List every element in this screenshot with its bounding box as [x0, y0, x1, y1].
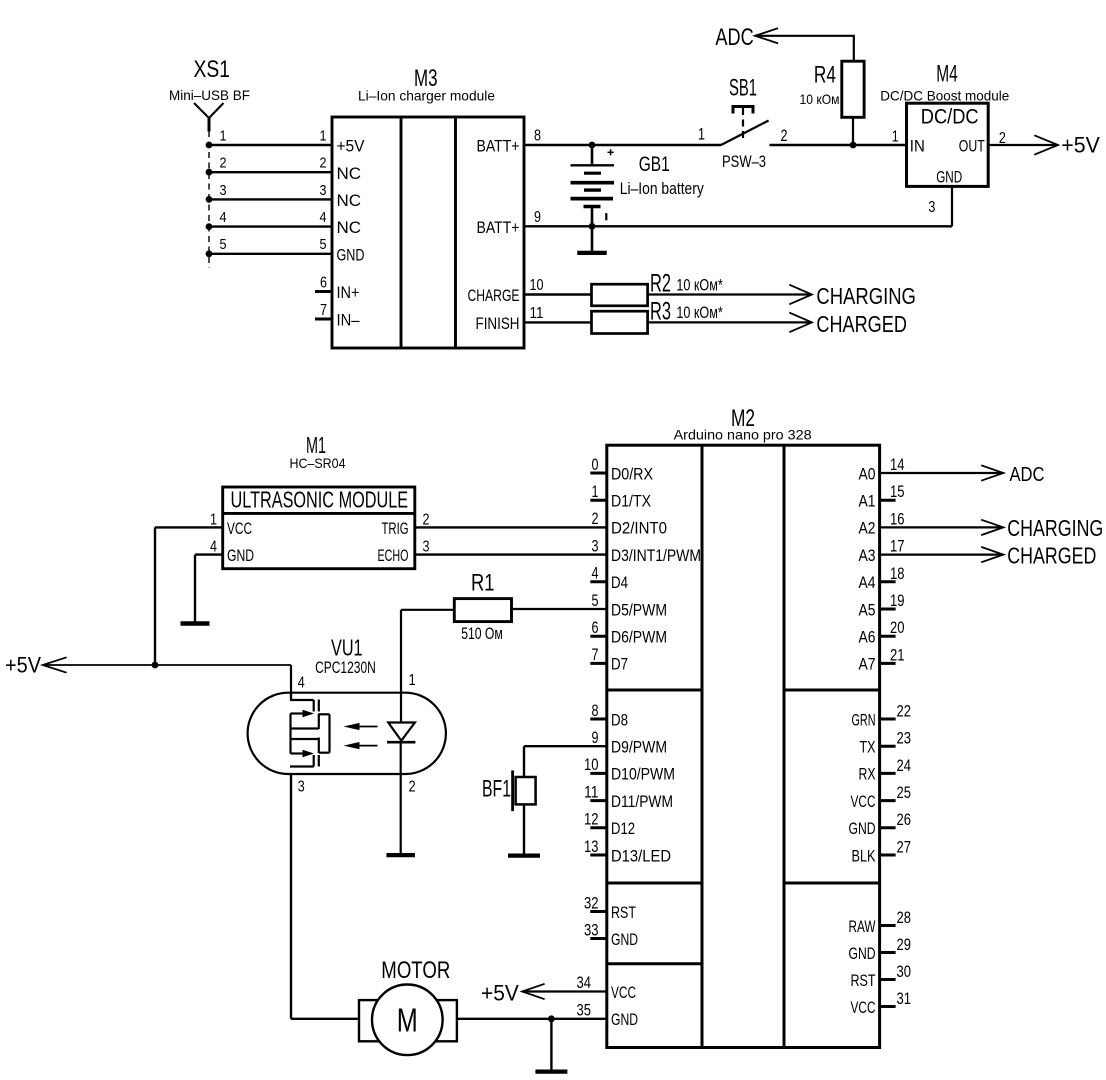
XS1 pin 3 wire to M3 pin 3 — [206, 182, 332, 203]
svg-text:R3: R3 — [650, 297, 671, 325]
svg-text:A7: A7 — [859, 655, 876, 674]
M2 pin 3 D3/INT1/PWM — [592, 537, 702, 565]
wire SB1 to M4 pin 1 IN — [770, 144, 907, 146]
junction node battery + on pin 8 wire — [589, 142, 596, 149]
svg-text:ULTRASONIC MODULE: ULTRASONIC MODULE — [231, 487, 409, 513]
svg-text:14: 14 — [890, 456, 905, 474]
M2 pin 11 D11/PWM — [584, 783, 673, 811]
svg-text:+5V: +5V — [481, 980, 519, 1005]
svg-text:TX: TX — [860, 738, 876, 757]
wire M3 CHARGE pin 10 to R2 — [524, 293, 592, 295]
connector XS1 dashed body line — [208, 131, 210, 268]
svg-text:3: 3 — [220, 182, 227, 199]
net flag CHARGED (top) arrow — [789, 313, 812, 333]
M3 pin 8 BATT+ label — [477, 128, 542, 156]
svg-text:NC: NC — [337, 218, 362, 237]
svg-text:MOTOR: MOTOR — [381, 957, 450, 984]
svg-text:GND: GND — [849, 819, 876, 838]
XS1 pin 1 wire to M3 pin 1 — [206, 127, 332, 148]
wire M2 A0 to ADC flag — [880, 472, 1001, 474]
svg-text:26: 26 — [897, 811, 912, 829]
svg-text:A5: A5 — [859, 600, 876, 619]
svg-text:22: 22 — [897, 702, 912, 720]
svg-text:D7: D7 — [611, 655, 628, 674]
svg-text:4: 4 — [298, 675, 305, 692]
svg-text:2: 2 — [423, 511, 430, 528]
svg-text:6: 6 — [592, 619, 599, 637]
svg-text:15: 15 — [890, 483, 905, 501]
svg-text:+5V: +5V — [5, 653, 41, 678]
svg-text:GND: GND — [849, 944, 876, 963]
M2 pin 24 RX — [859, 757, 912, 784]
wire M1 TRIG to M2 D2 — [415, 526, 607, 528]
wire R4 top to ADC flag — [755, 36, 855, 61]
battery GB1 symbol — [571, 145, 615, 253]
svg-text:8: 8 — [592, 702, 599, 720]
svg-text:D11/PWM: D11/PWM — [611, 792, 673, 811]
svg-text:2: 2 — [592, 510, 599, 528]
svg-text:9: 9 — [592, 729, 599, 747]
svg-text:M: M — [397, 1002, 418, 1039]
resistor R3 body — [592, 311, 648, 333]
wire R4 bottom to IN wire — [852, 117, 854, 145]
M2 pin 21 A7 — [859, 646, 905, 673]
battery GB1 minus tick — [605, 213, 607, 220]
wire R3 to CHARGED flag — [648, 321, 810, 323]
wire M3 FINISH pin 11 to R3 — [524, 321, 592, 323]
ground symbol below VU1 pin 2 — [386, 853, 415, 857]
VU1 MOSFET gate bracket with body arrows — [291, 710, 319, 758]
svg-text:VCC: VCC — [851, 792, 876, 811]
svg-text:20: 20 — [890, 619, 905, 637]
svg-text:30: 30 — [897, 963, 912, 981]
M2 pin 7 D7 — [590, 646, 628, 674]
M2 pin 25 VCC — [851, 784, 912, 811]
svg-text:NC: NC — [337, 191, 362, 210]
net flag CHARGED (A3) arrow — [981, 547, 1003, 562]
svg-text:BF1: BF1 — [482, 776, 511, 803]
wire M2 A3 to CHARGED flag — [880, 553, 1001, 555]
svg-text:D4: D4 — [611, 573, 628, 592]
svg-text:2: 2 — [409, 778, 416, 795]
svg-text:10: 10 — [530, 277, 544, 294]
svg-text:3: 3 — [928, 199, 935, 216]
ground symbol below M1 GND — [181, 621, 210, 626]
wire M1 GND down — [195, 555, 223, 622]
svg-text:4: 4 — [220, 209, 227, 226]
svg-text:16: 16 — [890, 510, 905, 528]
svg-text:1: 1 — [698, 125, 705, 143]
connector XS1 socket symbol — [194, 103, 224, 132]
svg-text:A1: A1 — [859, 492, 876, 511]
switch SB1 push-button symbol — [721, 105, 769, 145]
svg-text:FINISH: FINISH — [476, 314, 520, 333]
svg-text:A2: A2 — [859, 519, 876, 538]
XS1 pin 5 wire to M3 pin 5 — [206, 236, 332, 257]
XS1 pin 4 wire to M3 pin 4 — [206, 209, 332, 230]
M2 pin 2 D2/INT0 — [592, 510, 668, 538]
svg-text:5: 5 — [320, 236, 327, 253]
svg-text:D1/TX: D1/TX — [611, 492, 651, 511]
M1 pin 3 ECHO label — [378, 539, 430, 565]
M2 pin 35 GND — [577, 1001, 639, 1029]
svg-text:11: 11 — [584, 783, 599, 801]
svg-text:D9/PWM: D9/PWM — [611, 738, 667, 757]
M2 pin 8 D8 — [590, 702, 628, 730]
module M1 body — [223, 487, 415, 569]
svg-text:CHARGING: CHARGING — [1007, 515, 1103, 541]
junction node GND35 wire to ground — [548, 1015, 555, 1022]
svg-text:9: 9 — [534, 209, 541, 226]
ground symbol below battery GB1 — [577, 251, 607, 255]
svg-text:RX: RX — [859, 765, 876, 784]
M4 pin 3 GND label — [928, 168, 962, 217]
svg-text:Li–Ion charger module: Li–Ion charger module — [358, 88, 495, 104]
svg-text:GND: GND — [227, 546, 254, 565]
M3 pin 7 stub IN- — [315, 302, 360, 329]
svg-text:2: 2 — [320, 155, 327, 172]
M2 pin 16 A2 — [859, 510, 905, 537]
M2 pin 23 TX — [860, 730, 912, 757]
wire M3 pin 9 to M4 pin 3 (battery minus rail) — [524, 225, 952, 227]
svg-text:510 Ом: 510 Ом — [461, 625, 503, 643]
svg-text:35: 35 — [577, 1001, 592, 1019]
svg-text:3: 3 — [423, 539, 430, 556]
svg-text:BATT+: BATT+ — [477, 137, 520, 156]
svg-text:D6/PWM: D6/PWM — [611, 628, 667, 647]
svg-text:23: 23 — [897, 730, 912, 748]
svg-text:19: 19 — [890, 592, 905, 610]
svg-text:VCC: VCC — [227, 519, 252, 538]
junction node battery - on pin 9 wire — [589, 223, 596, 230]
resistor R1 body — [454, 599, 511, 622]
svg-text:VCC: VCC — [611, 983, 636, 1002]
resistor R4 body — [842, 61, 864, 117]
svg-text:HC–SR04: HC–SR04 — [290, 455, 346, 471]
svg-text:IN: IN — [910, 137, 925, 156]
wire M1 VCC to +5V rail — [155, 527, 223, 665]
svg-text:4: 4 — [210, 539, 217, 556]
svg-text:CHARGED: CHARGED — [1007, 543, 1096, 569]
wire motor to M2 GND pin 35 — [440, 1018, 607, 1020]
wire M1 ECHO to M2 D3 — [415, 553, 607, 555]
VU1 LED symbol — [387, 723, 415, 743]
svg-text:21: 21 — [890, 646, 905, 664]
M2 pin 27 BLK — [852, 838, 912, 865]
svg-text:A4: A4 — [859, 573, 876, 592]
svg-text:ECHO: ECHO — [378, 546, 409, 565]
svg-text:8: 8 — [534, 128, 541, 145]
wire M2 D9 to BF1 — [524, 746, 607, 777]
svg-text:GND: GND — [611, 930, 638, 949]
svg-text:1: 1 — [220, 127, 227, 144]
wire M2 A2 to CHARGING flag — [880, 526, 1001, 528]
svg-text:GND: GND — [337, 245, 365, 264]
svg-text:BLK: BLK — [852, 846, 876, 865]
svg-text:A3: A3 — [859, 546, 876, 565]
svg-text:0: 0 — [592, 456, 599, 474]
svg-text:7: 7 — [320, 302, 327, 319]
M2 pin 14 A0 — [859, 456, 905, 483]
svg-text:7: 7 — [592, 646, 599, 664]
wire junction down to ground — [550, 1019, 552, 1070]
svg-text:PSW–3: PSW–3 — [722, 153, 766, 171]
svg-text:Arduino nano pro 328: Arduino nano pro 328 — [674, 427, 812, 443]
svg-text:3: 3 — [320, 182, 327, 199]
net flag CHARGING (top) arrow — [789, 285, 812, 305]
svg-text:TRIG: TRIG — [382, 519, 409, 538]
svg-text:R1: R1 — [471, 569, 495, 596]
svg-text:BATT+: BATT+ — [477, 218, 520, 237]
buzzer BF1 body — [513, 770, 536, 811]
junction node R4 bottom on IN wire — [850, 142, 857, 149]
svg-text:1: 1 — [892, 129, 899, 146]
svg-text:3: 3 — [298, 778, 305, 795]
svg-text:NC: NC — [337, 164, 362, 183]
svg-text:CHARGE: CHARGE — [468, 286, 520, 305]
net flag +5V (M4 out) arrow — [1034, 135, 1058, 154]
svg-text:D3/INT1/PWM: D3/INT1/PWM — [611, 546, 701, 565]
ground symbol below BF1 — [508, 853, 540, 857]
svg-text:29: 29 — [897, 936, 912, 954]
svg-text:1: 1 — [592, 483, 599, 501]
wire VU1 pin 3 down to motor — [290, 774, 292, 1019]
svg-text:D12: D12 — [611, 819, 635, 838]
M1 pin 2 TRIG label — [382, 511, 430, 537]
wire BF1 down to ground — [523, 804, 525, 853]
M2 pin 9 D9/PWM — [592, 729, 668, 757]
net flag +5V (VCC34) arrow — [522, 984, 544, 999]
svg-text:GND: GND — [611, 1010, 638, 1029]
svg-text:1: 1 — [320, 127, 327, 144]
M2 pin 29 GND — [849, 936, 912, 963]
M2 pin 28 RAW — [849, 909, 912, 936]
M2 pin 30 RST — [851, 963, 912, 990]
svg-text:31: 31 — [897, 990, 912, 1008]
M2 pin 5 D5/PWM — [592, 592, 668, 620]
M2 pin 1 D1/TX — [590, 483, 651, 511]
svg-text:GB1: GB1 — [639, 153, 670, 176]
svg-text:4: 4 — [320, 209, 327, 226]
wire VU1 pin 3 to motor left terminal — [291, 1018, 370, 1020]
svg-text:DC/DC Boost module: DC/DC Boost module — [880, 88, 1009, 104]
svg-text:+5V: +5V — [337, 137, 366, 156]
motor body circle — [372, 985, 443, 1056]
wire M4 OUT to +5V flag — [988, 144, 1058, 146]
svg-text:D10/PWM: D10/PWM — [611, 765, 675, 784]
svg-text:2: 2 — [220, 155, 227, 172]
svg-text:R4: R4 — [814, 62, 836, 89]
svg-text:24: 24 — [897, 757, 912, 775]
M1 pin 1 VCC label — [210, 511, 252, 537]
svg-text:D13/LED: D13/LED — [611, 846, 671, 865]
M2 pin 6 D6/PWM — [590, 619, 667, 647]
M2 pin 22 GRN — [852, 702, 912, 729]
net flag CHARGING (A2) arrow — [981, 520, 1003, 535]
M2 pin 10 D10/PWM — [584, 756, 675, 784]
M3 pin 11 FINISH label — [476, 305, 544, 333]
svg-text:1: 1 — [409, 672, 416, 689]
svg-text:ADC: ADC — [715, 24, 753, 51]
net flag +5V (left) arrow — [43, 657, 67, 672]
VU1 MOSFET source bracket — [319, 714, 330, 752]
M2 pin 26 GND — [849, 811, 912, 838]
svg-text:GND: GND — [936, 168, 962, 187]
svg-text:D0/RX: D0/RX — [611, 464, 653, 483]
wire R2 to CHARGING flag — [648, 293, 810, 295]
svg-text:D2/INT0: D2/INT0 — [611, 519, 667, 538]
svg-text:Li–Ion battery: Li–Ion battery — [620, 180, 705, 198]
VU1 light arrow upper — [344, 723, 378, 730]
optocoupler VU1 body outline — [248, 693, 446, 774]
svg-text:3: 3 — [592, 537, 599, 555]
M4 pin 2 OUT label — [959, 130, 1006, 156]
svg-text:17: 17 — [890, 538, 905, 556]
battery GB1 plus sign — [608, 149, 614, 155]
M2 pin 18 A4 — [859, 565, 905, 592]
svg-text:33: 33 — [584, 921, 599, 939]
svg-text:6: 6 — [320, 275, 327, 292]
VU1 MOSFET drain connection bottom — [290, 755, 314, 767]
svg-text:10 кОм*: 10 кОм* — [676, 276, 723, 294]
svg-text:DC/DC: DC/DC — [921, 105, 979, 129]
svg-text:VU1: VU1 — [331, 635, 363, 661]
svg-text:10: 10 — [584, 756, 599, 774]
wire +5V flag to M2 VCC pin 34 — [522, 990, 607, 992]
wire +5V rail to VU1 pin 4 — [43, 665, 291, 700]
svg-text:CHARGED: CHARGED — [816, 311, 907, 337]
svg-text:10 кОм: 10 кОм — [800, 91, 840, 107]
motor M1 terminals — [359, 1000, 457, 1041]
svg-text:RST: RST — [851, 971, 876, 990]
svg-text:1: 1 — [210, 511, 217, 528]
M2 pin 4 D4 — [590, 565, 628, 593]
svg-text:12: 12 — [584, 811, 599, 829]
svg-text:27: 27 — [897, 838, 912, 856]
svg-text:4: 4 — [592, 565, 599, 583]
wire R1 to VU1 pin 1 (LED anode) — [401, 610, 455, 723]
svg-text:GRN: GRN — [852, 710, 876, 729]
svg-text:RST: RST — [611, 903, 636, 922]
module M2 body — [607, 445, 880, 1047]
svg-text:IN+: IN+ — [337, 283, 360, 302]
M2 pin 15 A1 — [859, 483, 905, 510]
svg-text:+5V: +5V — [1061, 133, 1100, 158]
M2 pin 0 D0/RX — [590, 456, 653, 484]
wire M4 GND down to pin 9 rail — [951, 186, 953, 226]
svg-text:5: 5 — [592, 592, 599, 610]
net flag ADC (A0) arrow — [981, 465, 1003, 480]
M4 pin 1 IN label — [892, 129, 925, 156]
svg-text:XS1: XS1 — [194, 56, 231, 83]
M1 pin 4 GND label — [210, 539, 254, 565]
svg-text:R2: R2 — [650, 269, 671, 297]
M2 pin 31 VCC — [851, 990, 912, 1017]
M3 pin 10 CHARGE label — [468, 277, 544, 305]
svg-text:18: 18 — [890, 565, 905, 583]
VU1 light arrow lower — [344, 742, 378, 749]
svg-text:5: 5 — [220, 236, 227, 253]
module M3 body — [332, 117, 524, 348]
M2 pin 20 A6 — [859, 619, 905, 646]
wire M3 pin 8 to switch SB1 — [524, 144, 721, 146]
M3 pin 6 stub IN+ — [315, 275, 360, 302]
svg-text:34: 34 — [577, 974, 592, 992]
svg-text:CPC1230N: CPC1230N — [315, 659, 376, 677]
M2 pin 17 A3 — [859, 538, 905, 565]
svg-text:SB1: SB1 — [729, 75, 757, 102]
VU1 MOSFET channel line — [318, 700, 320, 767]
ground symbol below GND35 rail — [535, 1069, 567, 1073]
M2 pin 32 RST — [584, 894, 636, 922]
svg-text:RAW: RAW — [849, 917, 876, 936]
svg-text:28: 28 — [897, 909, 912, 927]
svg-text:10 кОм*: 10 кОм* — [676, 304, 723, 322]
svg-text:IN–: IN– — [337, 311, 360, 330]
svg-text:2: 2 — [781, 127, 788, 145]
junction node +5V rail at M1 VCC drop — [152, 662, 159, 669]
VU1 MOSFET drain connection top — [290, 693, 314, 712]
M2 pin 33 GND — [584, 921, 638, 949]
module M4 body — [907, 103, 989, 186]
svg-text:VCC: VCC — [851, 998, 876, 1017]
svg-text:A6: A6 — [859, 628, 876, 647]
svg-text:D8: D8 — [611, 710, 628, 729]
svg-text:D5/PWM: D5/PWM — [611, 600, 667, 619]
svg-text:32: 32 — [584, 894, 599, 912]
svg-text:A0: A0 — [859, 464, 876, 483]
M2 pin 12 D12 — [584, 811, 635, 839]
svg-text:M4: M4 — [936, 60, 958, 87]
resistor R2 body — [592, 284, 648, 306]
M3 pin 9 BATT+ label — [477, 209, 542, 237]
svg-text:CHARGING: CHARGING — [816, 283, 916, 309]
M2 pin 34 VCC — [577, 974, 637, 1002]
svg-text:OUT: OUT — [959, 137, 985, 156]
svg-text:Mini–USB BF: Mini–USB BF — [169, 87, 250, 103]
svg-text:11: 11 — [530, 305, 544, 322]
wire VU1 pin 2 (LED cathode) down to ground — [400, 742, 402, 853]
svg-text:ADC: ADC — [1010, 464, 1045, 486]
M2 pin 13 D13/LED — [584, 838, 671, 866]
XS1 pin 2 wire to M3 pin 2 — [206, 155, 332, 176]
M2 pin 19 A5 — [859, 592, 905, 619]
net flag ADC (top) arrow — [755, 28, 778, 43]
svg-text:25: 25 — [897, 784, 912, 802]
svg-text:13: 13 — [584, 838, 599, 856]
wire R1 to M2 D5 — [512, 608, 607, 610]
